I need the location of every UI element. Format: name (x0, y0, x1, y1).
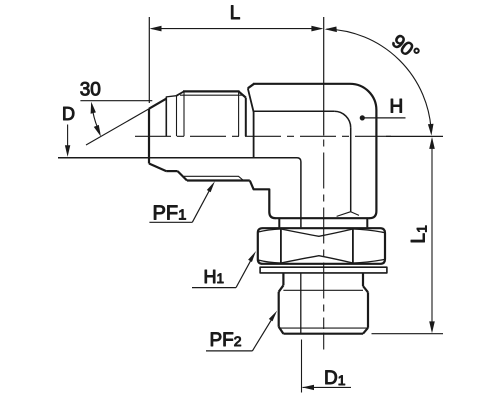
component: elbow body top edge (253, 83, 350, 85)
wire: D1 dimension line (303, 386, 352, 388)
wire: H leader line (362, 117, 405, 119)
wire: thread end vertical (245, 98, 247, 137)
wire: L dimension line (152, 28, 322, 30)
component: elbow top-left chamfer (248, 84, 254, 89)
wire: PF2 underline (206, 350, 252, 352)
component: thread runout tent left (337, 212, 351, 217)
component: left port thread end chamfer (239, 91, 246, 97)
node: D arrowhead (65, 145, 70, 157)
wire: thread boundary vertical c (183, 92, 185, 137)
component: elbow inner right vertical (350, 128, 352, 212)
svg-text:D1: D1 (324, 368, 346, 389)
component: stud left shank (282, 273, 284, 285)
svg-text:L: L (230, 3, 241, 24)
component: elbow left face (248, 88, 254, 158)
node: arc bottom arrowhead (428, 124, 434, 136)
wire: thread boundary vertical b (176, 96, 178, 136)
component: elbow inner corner arc (334, 111, 351, 128)
node: D1 arrowhead (302, 385, 314, 390)
component: locknut H1 outline (258, 228, 385, 264)
svg-text:90°: 90° (387, 31, 423, 65)
node: H1 arrowhead (248, 251, 256, 262)
wire: D1 extension line (301, 340, 303, 393)
wire: H1 leader (236, 255, 254, 287)
component: stud bottom left chamfer (279, 327, 284, 334)
wire: 90 degree dimension arc (327, 29, 432, 132)
node: L left arrowhead (150, 26, 162, 32)
node: L1 top arrowhead (429, 137, 435, 149)
component: stud bottom chamfer line (279, 327, 368, 329)
svg-text:H: H (390, 97, 404, 118)
component: stud thread start line (283, 289, 363, 291)
node: angular dim lower arrowhead (94, 125, 101, 137)
wire: horizontal centerline of left port (135, 135, 392, 137)
component: elbow outer corner arc (350, 84, 376, 110)
component: left port bottom step diagonal (178, 171, 187, 180)
svg-text:L1: L1 (409, 225, 430, 244)
component: left port thread rise diagonal (177, 91, 185, 95)
component: locknut top chamfer arcs (281, 229, 353, 236)
wire: thread boundary vertical a (165, 98, 167, 137)
wire: H1 underline (192, 287, 236, 289)
wire: D arrow stem (67, 125, 69, 154)
component: stud bottom right chamfer (363, 328, 368, 334)
component: elbow inner top line (254, 110, 335, 112)
component: left port thread top edge (183, 90, 240, 92)
component: neck left vertical (278, 218, 280, 227)
wire: 30deg upper reference line (80, 100, 152, 102)
wire: angular dimension arc stem (92, 104, 100, 133)
wire: thread boundary vertical d (238, 92, 240, 137)
component: washer (260, 267, 387, 273)
node: PF2 arrowhead (269, 311, 277, 322)
component: left port bottom land (166, 170, 177, 172)
component: thread runout tent right (351, 212, 359, 216)
component: left port nose tip vertical (148, 109, 150, 164)
wire: L1 bottom reference line (372, 333, 444, 335)
component: inner bore horizontal line (58, 158, 301, 228)
node: angular dim upper arrowhead (91, 102, 96, 114)
svg-text:30: 30 (80, 80, 101, 101)
svg-text:PF2: PF2 (210, 330, 242, 351)
node: L right arrowhead (311, 26, 323, 32)
component: left port thread root line top (180, 94, 242, 96)
component: stud inner bore line (300, 273, 302, 334)
svg-text:D: D (62, 104, 75, 124)
component: stud right shank (362, 273, 364, 286)
svg-text:H1: H1 (204, 267, 225, 287)
component: left port thread root line bottom (184, 176, 244, 180)
wire: L1 dimension line (431, 139, 433, 331)
wire: right reference segment of centerline (386, 135, 443, 137)
component: elbow outer right edge (375, 110, 377, 211)
wire: PF1 leader (192, 185, 212, 222)
node: H leader dot (360, 115, 365, 120)
component: locknut bottom chamfer arcs (281, 256, 353, 263)
component: left port bottom chamfer (149, 164, 166, 172)
wire: L dimension left extension line (148, 17, 150, 103)
component: left port 30deg top chamfer (149, 99, 166, 109)
component: locknut facet line left (280, 228, 282, 263)
component: stud right thread OD (367, 292, 369, 328)
wire: PF2 leader (252, 314, 274, 351)
component: body staircase to boss (250, 181, 276, 219)
component: left port thread bottom edge (187, 179, 250, 181)
node: L1 bottom arrowhead (429, 321, 435, 333)
component: shoulder line (275, 217, 370, 219)
component: locknut top side chamfer arcs (258, 229, 384, 233)
svg-text:PF1: PF1 (153, 203, 187, 225)
component: neck right vertical (366, 218, 368, 227)
component: stud left thread OD (278, 292, 280, 327)
wire: 30deg cone construction line (86, 109, 150, 146)
component: elbow right fillet to shoulder (370, 211, 377, 218)
component: stud bottom edge (283, 333, 363, 335)
node: arc top arrowhead (325, 27, 337, 33)
component: locknut bottom side chamfer arcs (258, 259, 384, 263)
component: left port groove profile (166, 96, 177, 99)
component: stud right thread runout diagonal (363, 286, 368, 292)
component: stud left thread runout diagonal (279, 285, 284, 292)
node: PF1 arrowhead (207, 181, 215, 192)
component: locknut facet line right (352, 228, 354, 263)
wire: PF1 underline (149, 221, 192, 223)
wire: vertical centerline of bottom port (also right extension of L) (323, 17, 325, 136)
label L1 rotated (409, 225, 430, 244)
